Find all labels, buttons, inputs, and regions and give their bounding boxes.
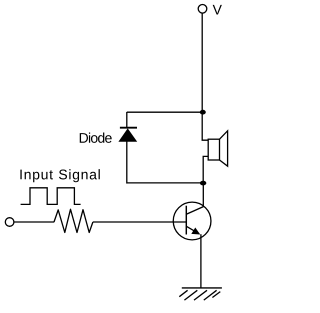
node junction1 bbox=[200, 110, 206, 115]
wire input bbox=[14, 221, 54, 223]
wire bottom horizontal bbox=[127, 182, 203, 184]
terminal V (supply) bbox=[198, 5, 207, 14]
label V bbox=[213, 5, 222, 15]
wire speaker top lead bbox=[202, 112, 208, 140]
speaker SP1 bbox=[208, 131, 227, 166]
wire speaker bottom lead bbox=[203, 156, 208, 183]
terminal input bbox=[5, 218, 14, 227]
wire diode cathode lead bbox=[126, 112, 128, 127]
input waveform bbox=[21, 188, 81, 205]
wire emitter bbox=[200, 234, 202, 288]
wire top horizontal bbox=[127, 111, 203, 113]
node junction2 bbox=[200, 181, 206, 186]
wire diode anode lead bbox=[126, 141, 128, 184]
wire base bbox=[93, 221, 186, 223]
transistor Q1 bbox=[173, 202, 211, 240]
diode D1 bbox=[118, 128, 137, 142]
resistor R1 bbox=[54, 209, 93, 232]
wire collector bbox=[202, 183, 204, 207]
ground bbox=[179, 288, 222, 300]
label Input Signal bbox=[20, 169, 99, 182]
wire supply vertical bbox=[201, 13, 203, 112]
label Diode bbox=[80, 133, 112, 143]
